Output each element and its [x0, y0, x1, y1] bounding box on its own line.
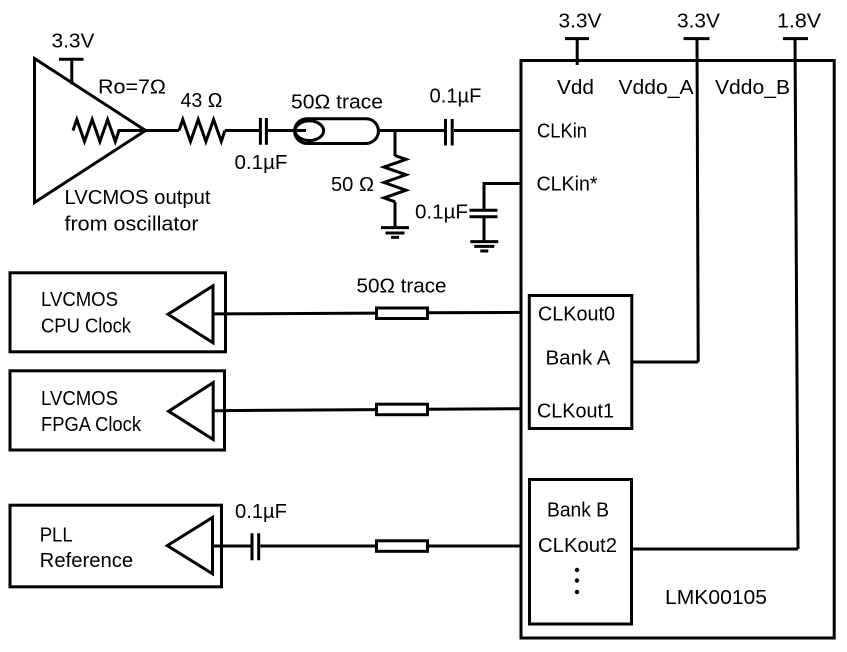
ellipsis dots (more outputs)	[575, 568, 579, 572]
power rail Vddo_B	[783, 39, 808, 549]
svg-text:Reference: Reference	[40, 550, 134, 572]
svg-text:Vdd: Vdd	[557, 77, 594, 99]
Bank A block	[529, 296, 632, 429]
svg-text:0.1µF: 0.1µF	[415, 201, 468, 223]
wire Bank A to Vddo_A rail	[632, 361, 698, 364]
svg-text:50 Ω: 50 Ω	[331, 174, 374, 196]
oscillator buffer U0	[35, 59, 146, 203]
svg-text:LMK00105: LMK00105	[665, 587, 767, 609]
power rail Vdd	[565, 39, 589, 65]
svg-text:Vddo_B: Vddo_B	[715, 77, 790, 99]
trace symbol (FPGA)	[377, 404, 428, 415]
svg-text:50Ω trace: 50Ω trace	[357, 276, 447, 298]
LVCMOS CPU Clock box	[10, 273, 226, 352]
receiver buffer (PLL)	[167, 518, 212, 574]
Bank B block	[530, 480, 632, 625]
wire CLKout2 to Vddo_B rail	[632, 548, 799, 551]
svg-text:0.1µF: 0.1µF	[430, 86, 482, 108]
svg-text:Ro=7Ω: Ro=7Ω	[98, 77, 166, 99]
wire C4 to trace	[260, 545, 376, 548]
svg-text:CLKin*: CLKin*	[537, 174, 598, 196]
svg-text:50Ω trace: 50Ω trace	[291, 92, 383, 114]
power rail Vddo_A	[684, 39, 710, 362]
wire C1 to transmission line	[268, 129, 306, 132]
transmission line 50Ω trace	[295, 119, 379, 144]
svg-text:Vddo_A: Vddo_A	[619, 77, 695, 99]
svg-text:CLKout1: CLKout1	[537, 401, 614, 423]
capacitor C4 0.1µF	[252, 533, 259, 560]
svg-text:LVCMOS: LVCMOS	[41, 388, 118, 410]
wire trace to CLKout2	[428, 545, 521, 548]
PLL Reference box	[10, 505, 222, 587]
capacitor C1 0.1µF	[260, 118, 266, 145]
svg-text:CPU Clock: CPU Clock	[41, 316, 132, 338]
svg-text:43 Ω: 43 Ω	[181, 90, 223, 112]
receiver buffer (CPU)	[168, 286, 213, 343]
svg-text:Bank A: Bank A	[546, 348, 612, 370]
resistor R2 50Ω termination	[384, 156, 406, 202]
svg-text:3.3V: 3.3V	[559, 11, 603, 33]
wire C2 to CLKin	[454, 129, 520, 132]
ground GND2	[470, 242, 498, 251]
ground GND1	[381, 228, 409, 238]
wire oscillator to R1	[146, 129, 180, 132]
svg-text:0.1µF: 0.1µF	[235, 501, 287, 523]
svg-text:CLKout2: CLKout2	[538, 535, 617, 557]
wire PLL to C4	[213, 545, 251, 548]
svg-text:Bank B: Bank B	[547, 500, 609, 522]
svg-text:CLKout0: CLKout0	[538, 304, 615, 326]
wire R2 to ground	[394, 202, 397, 226]
wire trace to CLKout0	[428, 311, 521, 314]
svg-text:LVCMOS: LVCMOS	[41, 289, 118, 311]
wire FPGA clock to trace	[213, 410, 377, 411]
svg-text:1.8V: 1.8V	[777, 11, 822, 33]
svg-text:from oscillator: from oscillator	[65, 214, 199, 236]
wire C3 to ground	[483, 217, 486, 240]
svg-text:FPGA Clock: FPGA Clock	[41, 414, 142, 436]
wire CLKin* to C3	[484, 182, 521, 209]
resistor R1 43Ω	[179, 120, 225, 142]
wire CPU clock to trace	[213, 312, 377, 316]
wire junction to R2	[394, 131, 397, 157]
svg-text:3.3V: 3.3V	[677, 11, 721, 33]
wire R1 to C1	[225, 129, 259, 132]
LVCMOS FPGA Clock box	[10, 371, 225, 450]
resistor Ro (output impedance)	[73, 120, 146, 142]
capacitor C3 0.1µF	[470, 210, 498, 216]
wire trace to CLKout1	[428, 407, 521, 411]
trace symbol (PLL)	[377, 541, 428, 552]
svg-text:3.3V: 3.3V	[52, 31, 96, 53]
wire transmission line to C2 (junction at x=394.5)	[378, 129, 444, 132]
svg-text:LVCMOS output: LVCMOS output	[65, 187, 211, 209]
trace symbol (CPU)	[377, 308, 428, 319]
LMK00105 package outline	[521, 61, 834, 639]
power rail 3.3V (oscillator)	[59, 59, 84, 84]
receiver buffer (FPGA)	[169, 383, 214, 440]
svg-text:0.1µF: 0.1µF	[235, 152, 288, 174]
svg-text:PLL: PLL	[40, 525, 73, 547]
svg-text:CLKin: CLKin	[537, 121, 587, 143]
capacitor C2 0.1µF	[446, 119, 453, 146]
